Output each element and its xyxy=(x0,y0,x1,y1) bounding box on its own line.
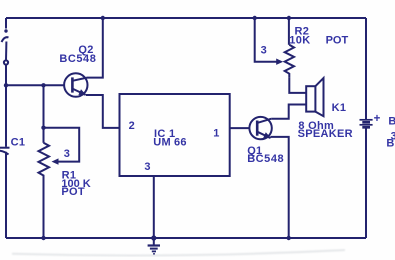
wire R1 wiper loop xyxy=(44,128,80,162)
wire R1 bottom to bottom rail xyxy=(43,180,45,238)
ground xyxy=(153,238,155,245)
svg-text:B1: B1 xyxy=(388,115,395,127)
node: ground / bottom rail xyxy=(151,235,156,240)
wire IC pin1 to Q1 base xyxy=(230,127,250,129)
R2 wiper arrowhead xyxy=(276,59,283,65)
wire base node to R1 xyxy=(43,85,45,143)
svg-text:POT: POT xyxy=(61,186,85,198)
speaker K1 xyxy=(306,78,323,116)
wire Q1 emitter to bottom rail xyxy=(270,137,288,238)
switch S1 xyxy=(2,29,9,64)
node: Q2 collector / top rail xyxy=(101,16,105,20)
transistor Q2 BC548 xyxy=(64,73,87,96)
svg-text:SPEAKER: SPEAKER xyxy=(298,128,353,140)
wire R2 wiper xyxy=(255,18,277,62)
battery B1 xyxy=(360,120,373,128)
transistor Q1 BC548 xyxy=(249,117,271,139)
pot R2 10K zigzag xyxy=(285,45,294,77)
wire Q1 collector to speaker xyxy=(272,105,306,119)
node: R2 wiper / top rail xyxy=(253,16,257,20)
wire left rail mid xyxy=(5,65,7,147)
svg-text:BC548: BC548 xyxy=(59,53,96,65)
svg-text:3: 3 xyxy=(144,161,150,173)
node: R1 / bottom rail xyxy=(41,236,45,240)
node: base / R1 branch xyxy=(41,83,45,87)
wire R2 top from top rail xyxy=(288,18,290,45)
wire right rail lower xyxy=(365,128,367,238)
svg-text:POT: POT xyxy=(326,35,349,47)
wire left rail upper xyxy=(5,18,7,29)
wire right rail upper xyxy=(365,18,367,119)
svg-text:UM 66: UM 66 xyxy=(153,136,186,148)
wire top rail xyxy=(6,17,366,19)
wire Q2 collector to top rail xyxy=(87,18,103,78)
node: R2 / top rail xyxy=(287,16,291,20)
node: Q1 emitter / bottom rail xyxy=(287,236,291,240)
svg-text:1: 1 xyxy=(213,127,219,139)
wire IC pin3 to ground rail xyxy=(153,176,155,238)
svg-text:C1: C1 xyxy=(11,137,26,149)
node: Q2 base / left rail xyxy=(4,83,8,87)
wire Q2 emitter to IC pin2 xyxy=(86,95,120,128)
svg-text:BC548: BC548 xyxy=(247,153,284,165)
svg-text:K1: K1 xyxy=(332,102,347,114)
capacitor C1 xyxy=(0,148,10,155)
IC U1 UM66 body xyxy=(120,94,230,176)
svg-text:2: 2 xyxy=(129,120,135,132)
R1 wiper arrowhead xyxy=(52,158,59,164)
node: R1 top / wiper xyxy=(41,126,45,130)
page shadow curve xyxy=(12,250,345,256)
svg-text:3: 3 xyxy=(64,148,70,160)
svg-text:10K: 10K xyxy=(289,35,310,47)
svg-text:+: + xyxy=(374,113,381,125)
resistor R1 100K POT zigzag xyxy=(39,143,50,180)
wire left rail lower xyxy=(5,152,7,238)
wire Q2 base from left rail xyxy=(6,84,65,86)
svg-text:3: 3 xyxy=(261,45,267,57)
svg-text:BATTERY: BATTERY xyxy=(386,138,395,150)
wire R2 bottom to speaker xyxy=(289,77,306,93)
wire bottom rail xyxy=(6,237,366,239)
